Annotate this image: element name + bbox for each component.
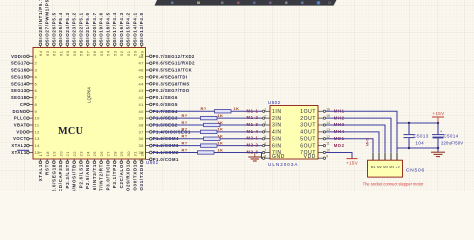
svg-text:SIO20/P4.7: SIO20/P4.7 (92, 12, 97, 42)
U502 pin 2 (2IN) (262, 114, 281, 122)
svg-text:+: + (440, 129, 442, 133)
svg-text:P0.1/SEG6: P0.1/SEG6 (153, 95, 178, 100)
svg-text:The socket connect stepper mot: The socket connect stepper motor (363, 181, 424, 186)
svg-text:P0.0/SEG5: P0.0/SEG5 (153, 102, 178, 107)
MCU pin 38 (P1.5/SEG2) (139, 123, 178, 128)
resistor R? 1K row 3 (182, 120, 224, 127)
wire MH4 to socket (326, 132, 379, 153)
power +15V (rail) (432, 111, 445, 123)
U502 pin 14 (3OUT) (300, 121, 330, 129)
MCU pin 60 (SIO24/P5.3) (65, 12, 70, 56)
wire XTAL segment (17, 149, 29, 151)
wire MH3 to socket (326, 125, 385, 153)
U502 pin 9 (VDD) (304, 154, 329, 160)
MCU pin 32 (SIO31/TXD0) (139, 151, 144, 197)
svg-text:R?: R? (182, 147, 188, 152)
svg-text:1OUT: 1OUT (300, 109, 316, 115)
svg-text:41: 41 (139, 102, 145, 107)
svg-text:58: 58 (79, 50, 84, 56)
MCU pin 43 (P0.2/SEG7/TDO) (139, 88, 190, 93)
MCU pin 18 (RST) (45, 151, 50, 175)
node (0, 0, 1, 1)
svg-text:1K: 1K (218, 134, 224, 139)
svg-text:GND: GND (272, 154, 285, 160)
svg-text:4: 4 (264, 128, 266, 132)
MCU pin 8 (CP) (20, 102, 38, 107)
MCU pin 12 (VDD) (16, 129, 40, 134)
svg-text:42: 42 (139, 95, 145, 100)
svg-text:CN506: CN506 (406, 168, 425, 174)
wire to +15V power port (326, 152, 352, 158)
MCU pin 45 (P0.4/SEG9/TDI) (139, 74, 188, 79)
svg-text:SIO19/P4.6: SIO19/P4.6 (99, 12, 104, 42)
svg-text:11: 11 (35, 123, 40, 128)
svg-text:53: 53 (112, 50, 117, 56)
connector CN506 socket (368, 160, 425, 177)
svg-text:R?: R? (182, 113, 188, 118)
MCU pin 54 (SIO18/P4.5) (105, 12, 110, 56)
svg-text:VDD: VDD (16, 129, 26, 134)
svg-text:MD2: MD2 (334, 143, 345, 148)
node MH5 vertical label (366, 138, 370, 146)
svg-text:P0.7/SEG12/TXD2: P0.7/SEG12/TXD2 (153, 54, 195, 59)
svg-text:U502: U502 (268, 100, 281, 105)
svg-text:45: 45 (139, 74, 145, 79)
MCU pin 41 (P0.0/SEG5) (139, 102, 178, 107)
svg-text:48: 48 (139, 54, 145, 59)
svg-text:14: 14 (35, 143, 41, 148)
svg-text:46: 46 (139, 68, 145, 73)
svg-text:6IN: 6IN (272, 143, 282, 149)
svg-text:50: 50 (133, 50, 138, 56)
svg-text:39: 39 (139, 116, 145, 121)
MCU pin 30 (SIO29/RXD1) (126, 151, 131, 197)
svg-text:61: 61 (58, 50, 63, 56)
svg-text:SIO26/P5.5: SIO26/P5.5 (51, 12, 56, 42)
svg-text:P2.6/LS1: P2.6/LS1 (79, 164, 84, 188)
MCU pin 57 (SIO21/P5.0) (85, 12, 90, 56)
svg-text:1: 1 (264, 107, 266, 111)
svg-text:P0.4/SEG9/TDI: P0.4/SEG9/TDI (153, 74, 188, 79)
MCU U501 body (33, 48, 146, 160)
svg-text:4: 4 (35, 74, 38, 79)
U502 pin 1 (1IN) (262, 107, 281, 115)
ground symbol at ULN input side (248, 153, 261, 162)
MCU pin 59 (SIO23/P5.2) (72, 12, 77, 56)
resistor R? 1K row 5 (182, 134, 224, 141)
svg-text:SIO31/TXD0: SIO31/TXD0 (139, 164, 144, 191)
svg-text:M1-2: M1-2 (247, 115, 259, 120)
svg-text:SIO29/RXD1: SIO29/RXD1 (126, 164, 131, 191)
wire MH1 to socket (326, 111, 397, 153)
MCU pin 15 (XTAL1) (11, 150, 40, 155)
resistor R? 1K row 6 (182, 140, 224, 147)
MCU pin 42 (P0.1/SEG6) (139, 95, 178, 100)
U502 pin 4 (4IN) (262, 128, 281, 136)
CN506 pin stub 1 (372, 153, 374, 160)
MCU pin 46 (P0.5/SEG10/TCK) (139, 68, 193, 73)
resistor R? 1K row 2 (182, 113, 224, 120)
MCU pin 25 (P2.6/INT3/T1) (92, 151, 97, 199)
svg-text:6OUT: 6OUT (300, 143, 316, 149)
MCU pin 28 (P3.1/TP3) (112, 151, 117, 188)
U502 pin 16 (1OUT) (300, 107, 330, 115)
op-amp U502 ULN2003A body (268, 100, 318, 167)
wire row M2-2 (152, 145, 262, 147)
svg-text:CP: CP (20, 102, 27, 107)
MCU pin 51 (SIO15/P4.2) (126, 12, 131, 56)
node MD2 (334, 143, 345, 148)
node M2-3 (247, 149, 259, 154)
svg-text:62: 62 (52, 50, 57, 56)
resistor R? 1K row 1 (201, 106, 240, 113)
svg-text:M1-4: M1-4 (247, 129, 259, 134)
svg-text:SIO15/P4.2: SIO15/P4.2 (126, 12, 131, 42)
svg-text:R?: R? (201, 106, 207, 111)
svg-text:1K: 1K (218, 127, 224, 132)
svg-text:52: 52 (119, 50, 124, 56)
svg-text:22: 22 (72, 151, 77, 157)
svg-text:9: 9 (326, 154, 328, 158)
svg-text:P2.5/AN0: P2.5/AN0 (85, 164, 90, 189)
wire ground bottom rail (397, 147, 438, 149)
node MD1 (334, 136, 345, 141)
svg-text:RST: RST (45, 164, 50, 175)
MCU pin 6 (SEG13) (11, 88, 38, 93)
svg-text:17: 17 (38, 151, 43, 157)
svg-text:P3.0/T3CI: P3.0/T3CI (106, 164, 111, 191)
svg-text:R?: R? (182, 127, 188, 132)
MCU pin 13 (VOCT) (13, 136, 40, 141)
svg-text:1K: 1K (234, 106, 240, 111)
svg-text:57: 57 (85, 50, 90, 56)
wire row M1-4 (152, 131, 262, 133)
svg-text:SIO28/INT1/P5.7: SIO28/INT1/P5.7 (38, 0, 43, 42)
svg-text:51: 51 (126, 50, 131, 56)
node MH4 (334, 129, 345, 134)
svg-text:1K: 1K (218, 140, 224, 145)
MCU pin 17 (XTAL1) (38, 151, 43, 182)
svg-text:4OUT: 4OUT (300, 130, 316, 136)
svg-text:7: 7 (264, 149, 266, 153)
MCU pin 19 (P2.0/SEG18) (52, 151, 57, 196)
svg-text:XTAL1: XTAL1 (38, 164, 43, 181)
svg-text:P2.0/SEG18: P2.0/SEG18 (52, 164, 57, 191)
svg-text:32: 32 (139, 151, 144, 157)
MCU pin 56 (SIO20/P4.7) (92, 12, 97, 56)
wire row M1-1 (152, 110, 262, 112)
svg-text:SIO14/P4.1: SIO14/P4.1 (132, 12, 137, 42)
svg-text:R?: R? (182, 134, 188, 139)
svg-text:54: 54 (106, 50, 111, 56)
capacitor C5014 220uF/50V (432, 123, 463, 148)
svg-text:ULN2003A: ULN2003A (268, 162, 298, 167)
svg-text:SIO24/P5.3: SIO24/P5.3 (65, 12, 70, 42)
svg-text:M2-2: M2-2 (247, 143, 259, 148)
svg-text:SEG16: SEG16 (11, 68, 27, 73)
svg-text:SIO23/P5.2: SIO23/P5.2 (72, 12, 77, 42)
MCU pin 40 (P1.7/SEG4) (139, 109, 178, 114)
svg-text:XTAL2: XTAL2 (11, 143, 26, 148)
node M1-4 (247, 129, 259, 134)
node M1-1 (247, 108, 259, 113)
svg-text:24: 24 (85, 151, 90, 157)
svg-text:VLCD/CAP3S: VLCD/CAP3S (58, 164, 63, 191)
svg-text:C5014: C5014 (444, 134, 459, 139)
MCU pin 63 (SIO27/PWM1/P5.6) (45, 0, 50, 56)
svg-text:R?: R? (182, 120, 188, 125)
MCU pin 2 (SEG17) (11, 61, 38, 66)
svg-text:20: 20 (58, 151, 63, 157)
CN506 pin stub 4 (390, 153, 392, 160)
MCU pin 26 (P2.7/INT2/RT) (99, 151, 104, 200)
U502 pin 7 (7IN) (262, 149, 281, 157)
MCU pin 36 (P1.3/COM4) (139, 136, 179, 141)
svg-text:55: 55 (99, 50, 104, 56)
svg-text:PLLC: PLLC (14, 116, 27, 121)
svg-text:1K: 1K (218, 120, 224, 125)
svg-text:220uF/50V: 220uF/50V (441, 141, 463, 146)
CN506 pin stub 2 (378, 153, 380, 160)
svg-text:P1.0/COM1: P1.0/COM1 (153, 157, 179, 162)
svg-text:M1 M2 M3 M4 +V: M1 M2 M3 M4 +V (371, 165, 400, 169)
svg-text:35: 35 (139, 143, 145, 148)
svg-text:60: 60 (65, 50, 70, 56)
svg-text:40: 40 (139, 109, 145, 114)
svg-text:SIO18/P4.5: SIO18/P4.5 (105, 12, 110, 42)
svg-text:P2.4/MOSI/TB: P2.4/MOSI/TB (72, 164, 77, 191)
svg-text:44: 44 (139, 81, 145, 86)
svg-text:37: 37 (139, 129, 145, 134)
MCU pin 52 (SIO16/P4.3) (119, 12, 124, 56)
svg-text:2OUT: 2OUT (300, 116, 316, 122)
U502 pin 8 (GND) (262, 154, 284, 160)
svg-text:3: 3 (35, 68, 38, 73)
window title bar fragment (155, 0, 337, 6)
MCU pin 39 (P1.6/SEG3) (139, 116, 178, 121)
svg-text:P0.6/SEG11/RXD2: P0.6/SEG11/RXD2 (153, 61, 195, 66)
CN506 pin stub 5 (396, 153, 398, 160)
MCU pin 23 (P2.6/LS1) (79, 151, 84, 188)
wire row M2-3 (152, 151, 262, 153)
MCU pin 48 (P0.7/SEG12/TXD2) (139, 54, 195, 59)
MCU pin 62 (SIO26/P5.5) (51, 12, 56, 56)
annotation: socket note (363, 181, 424, 186)
wire +15V top rail (397, 122, 438, 124)
svg-text:21: 21 (65, 151, 70, 157)
svg-text:5: 5 (35, 81, 38, 86)
svg-text:8: 8 (264, 154, 266, 158)
svg-text:2: 2 (35, 61, 38, 66)
MCU pin 35 (P1.2/COM3) (139, 143, 179, 148)
power +15V (near U502) (346, 159, 359, 166)
node MH3 (334, 122, 345, 127)
MCU pin 34 (P1.1/COM2) (139, 150, 179, 155)
svg-text:6: 6 (35, 88, 38, 93)
node MH2 (334, 115, 345, 120)
svg-text:25: 25 (92, 151, 97, 157)
svg-text:63: 63 (45, 50, 50, 56)
svg-text:11: 11 (326, 142, 330, 146)
MCU pin 55 (SIO19/P4.6) (99, 12, 104, 56)
capacitor C5013 104 (404, 123, 429, 148)
svg-text:M1-3: M1-3 (247, 122, 259, 127)
svg-text:1K: 1K (218, 147, 224, 152)
node M2-1 (247, 136, 259, 141)
U502 pin 13 (4OUT) (300, 128, 330, 136)
svg-text:59: 59 (72, 50, 77, 56)
svg-text:31: 31 (133, 151, 138, 157)
svg-text:23: 23 (79, 151, 84, 157)
svg-text:VBAT: VBAT (14, 123, 27, 128)
svg-text:SIO25/P5.4: SIO25/P5.4 (58, 12, 63, 42)
MCU pin 33 (P1.0/COM1) (139, 157, 179, 162)
svg-text:VDDIO: VDDIO (11, 54, 27, 59)
svg-text:27: 27 (106, 151, 111, 157)
svg-text:2IN: 2IN (272, 116, 282, 122)
MCU pin 61 (SIO25/P5.4) (58, 12, 63, 56)
resistor R? 1K row 4 (182, 127, 224, 134)
svg-text:SIO13/P4.0: SIO13/P4.0 (139, 12, 144, 42)
node M1-3 (247, 122, 259, 127)
svg-text:7: 7 (35, 95, 38, 100)
MCU pin 31 (SIO30/TXD1) (133, 151, 138, 197)
svg-text:30: 30 (126, 151, 131, 157)
svg-text:5IN: 5IN (272, 136, 282, 142)
MCU pin 5 (SEG14) (11, 81, 38, 86)
svg-text:DGND: DGND (12, 109, 26, 114)
svg-text:13: 13 (35, 136, 41, 141)
MCU pin 4 (SEG15) (11, 74, 38, 79)
svg-text:3: 3 (264, 121, 266, 125)
svg-text:+15V: +15V (432, 111, 445, 116)
MCU pin 14 (XTAL2) (11, 143, 40, 148)
MCU pin 21 (P2.3/LST) (65, 151, 70, 189)
svg-text:SEG13: SEG13 (11, 88, 27, 93)
svg-text:64: 64 (38, 50, 43, 56)
svg-text:P0.3/SEG8/TMS: P0.3/SEG8/TMS (153, 81, 190, 86)
svg-text:SIO30/TXD1: SIO30/TXD1 (133, 164, 138, 191)
svg-text:8: 8 (35, 102, 38, 107)
U502 pin 12 (5OUT) (300, 135, 330, 143)
svg-text:10: 10 (35, 116, 41, 121)
svg-text:6: 6 (264, 142, 266, 146)
MCU pin 53 (SIO17/P4.4) (112, 12, 117, 56)
svg-text:3IN: 3IN (272, 123, 282, 129)
node MH1 (334, 108, 345, 113)
svg-text:P3.1/TP3: P3.1/TP3 (112, 164, 117, 188)
svg-text:+15V: +15V (346, 161, 359, 166)
svg-text:SIO22/P5.1: SIO22/P5.1 (78, 12, 83, 42)
svg-text:M2-1: M2-1 (247, 136, 259, 141)
svg-text:56: 56 (92, 50, 97, 56)
svg-text:29: 29 (119, 151, 124, 157)
MCU pin 1 (VDDIO) (11, 54, 37, 59)
svg-text:R?: R? (182, 140, 188, 145)
resistor R? 1K row 7 (182, 147, 224, 154)
svg-text:VOCT: VOCT (13, 136, 26, 141)
MCU pin 29 (C2C/ALO) (119, 151, 124, 189)
svg-text:5: 5 (264, 135, 266, 139)
MCU pin 24 (P2.5/AN0) (85, 151, 90, 189)
svg-text:C2C/ALO: C2C/ALO (119, 164, 124, 189)
U502 pin 6 (6IN) (262, 142, 281, 150)
svg-text:3OUT: 3OUT (300, 123, 316, 129)
svg-text:SIO27/PWM1/P5.6: SIO27/PWM1/P5.6 (45, 0, 50, 42)
svg-text:28: 28 (112, 151, 117, 157)
wire GND bend (254, 153, 262, 159)
svg-text:SEG17: SEG17 (11, 61, 27, 66)
svg-text:MCU: MCU (58, 126, 84, 137)
wire MH2 to socket (326, 118, 391, 153)
svg-text:MH5: MH5 (366, 138, 370, 146)
MCU pin 49 (SIO13/P4.0) (139, 12, 144, 56)
MCU pin 64 (SIO28/INT1/P5.7) (38, 0, 43, 56)
svg-text:P2.3/LST: P2.3/LST (65, 164, 70, 189)
wire row M1-2 (152, 117, 262, 119)
svg-text:1: 1 (35, 54, 38, 59)
MCU pin 22 (P2.4/MOSI/TB) (72, 151, 77, 202)
svg-text:1IN: 1IN (272, 109, 282, 115)
U502 pin 3 (3IN) (262, 121, 281, 129)
svg-text:SEG15: SEG15 (11, 74, 27, 79)
wire row M1-3 (152, 124, 262, 126)
svg-text:P2.7/INT2/RT: P2.7/INT2/RT (99, 164, 104, 191)
svg-text:M1-1: M1-1 (247, 108, 259, 113)
svg-text:43: 43 (139, 88, 145, 93)
MCU pin 3 (SEG16) (11, 68, 38, 73)
svg-text:4IN: 4IN (272, 130, 282, 136)
MCU pin 50 (SIO14/P4.1) (132, 12, 137, 56)
U502 pin 10 (7OUT) (300, 149, 330, 157)
MCU pin 44 (P0.3/SEG8/TMS) (139, 81, 190, 86)
svg-text:SIO21/P5.0: SIO21/P5.0 (85, 12, 90, 42)
CN506 pin stub 3 (384, 153, 386, 160)
svg-text:SEG14: SEG14 (11, 81, 27, 86)
MCU pin 58 (SIO22/P5.1) (78, 12, 83, 56)
svg-text:19: 19 (52, 151, 57, 157)
junction dots on rails (408, 122, 439, 149)
svg-text:26: 26 (99, 151, 104, 157)
svg-text:5OUT: 5OUT (300, 136, 316, 142)
node M1-2 (247, 115, 259, 120)
svg-text:P0.2/SEG7/TDO: P0.2/SEG7/TDO (153, 88, 190, 93)
MCU pin 10 (PLLC) (14, 116, 40, 121)
ground below C5014 (431, 148, 445, 157)
U502 pin 11 (6OUT) (300, 142, 330, 150)
svg-text:SEG18: SEG18 (11, 95, 27, 100)
svg-text:C5013: C5013 (414, 134, 429, 139)
MCU pin 47 (P0.6/SEG11/RXD2) (139, 61, 196, 66)
svg-text:47: 47 (139, 61, 145, 66)
U502 pin 5 (5IN) (262, 135, 281, 143)
svg-text:LQFP64: LQFP64 (87, 87, 92, 103)
svg-text:SIO17/P4.4: SIO17/P4.4 (112, 12, 117, 42)
svg-text:VDD: VDD (304, 154, 316, 160)
wire MD1 to socket (326, 139, 373, 153)
svg-text:104: 104 (416, 141, 425, 146)
MCU pin 7 (SEG18) (11, 95, 38, 100)
svg-text:38: 38 (139, 123, 145, 128)
svg-text:2: 2 (264, 114, 266, 118)
wire row M2-1 (152, 138, 262, 140)
MCU pin 20 (VLCD/CAP3S) (58, 151, 63, 199)
MCU pin 11 (VBAT) (14, 123, 40, 128)
U502 pin 15 (2OUT) (300, 114, 330, 122)
svg-text:1K: 1K (218, 113, 224, 118)
svg-text:P2.6/INT3/T1: P2.6/INT3/T1 (92, 164, 97, 191)
svg-text:36: 36 (139, 136, 145, 141)
